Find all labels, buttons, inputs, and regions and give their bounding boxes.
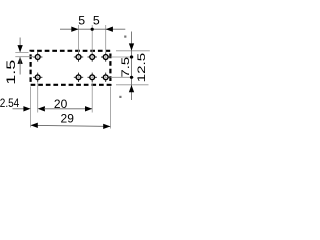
svg-text:20: 20 [54,97,68,111]
svg-text:12.5: 12.5 [136,53,148,83]
pad r2c4 [101,73,110,82]
pad r1c4 [101,52,110,61]
pad r2c3 [88,73,97,82]
bottom extension line from left edge [30,87,32,128]
arrow left-pointing to c1 [38,106,45,111]
top dimension extension line c4 [105,25,107,53]
svg-text:1.5: 1.5 [4,59,18,84]
svg-text:2.54: 2.54 [0,96,19,110]
right arrow down-pointing to top edge [129,43,134,50]
pad r2c2 [74,73,83,82]
top arrow right-pointing at c2 [71,27,78,32]
left arrow down-pointing [17,45,22,52]
right chain dot row2 [130,76,133,79]
top chain dot at c3 [91,28,94,31]
left arrow up-pointing [17,57,22,64]
arrow right-pointing to left edge [23,106,30,111]
left extension line from pad row1 [15,56,34,58]
dim line 2.54 [13,108,24,110]
pad r1c1 [33,52,42,61]
dim line 29 [31,125,111,126]
arrow left-pointing to left edge on 29 line [31,123,38,128]
top arrow left-pointing at c4 [106,27,113,32]
footnote mark bottom [119,96,121,98]
relay outline dashed rectangle [31,51,111,85]
top dimension line [60,28,125,30]
pad r2c1 [33,73,42,82]
svg-text:7.5: 7.5 [120,57,132,78]
right extension line from top edge [116,50,150,52]
svg-text:5: 5 [93,14,100,28]
bottom extension line from right edge [109,87,111,129]
left dimension line upper [19,38,21,52]
top dimension extension line c2 [78,25,80,53]
footnote mark top [124,36,126,38]
arrow right-pointing to right edge on 29 line [103,124,110,129]
dim line 20 [44,108,92,110]
svg-text:29: 29 [61,112,75,126]
left dimension line lower [19,57,21,75]
pad r1c3 [88,52,97,61]
right extension line from pad row2 [111,76,134,78]
bottom extension line from c1 [37,82,39,113]
arrow right-pointing to c3 [85,106,92,111]
right arrow up-pointing to bottom edge [129,85,134,92]
bottom extension line from c3 [91,82,93,113]
top dimension extension line c3 [91,25,93,53]
right extension line from bottom edge [116,84,149,86]
pad r1c2 [74,52,83,61]
right extension line from pad row1 [111,56,134,58]
right dimension line [131,32,133,101]
svg-text:5: 5 [78,14,85,28]
right chain dot row1 [130,55,133,58]
left extension line from top edge [15,51,28,53]
